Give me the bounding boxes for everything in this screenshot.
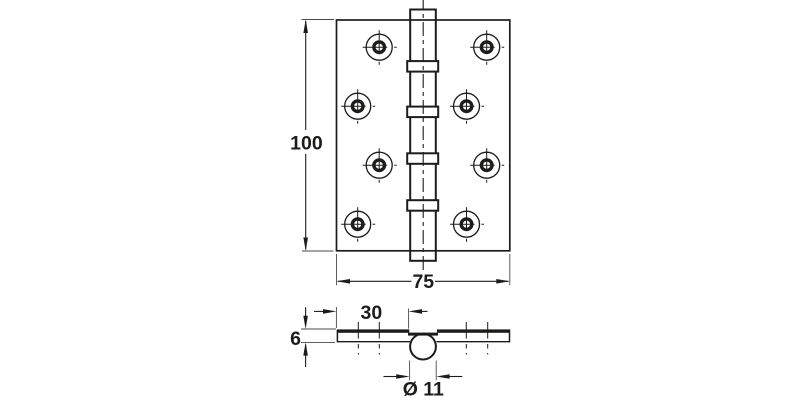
svg-text:Ø 11: Ø 11 [403,379,444,400]
svg-text:30: 30 [361,302,383,324]
svg-text:75: 75 [412,271,434,293]
svg-text:100: 100 [290,132,323,154]
svg-text:6: 6 [290,328,301,350]
